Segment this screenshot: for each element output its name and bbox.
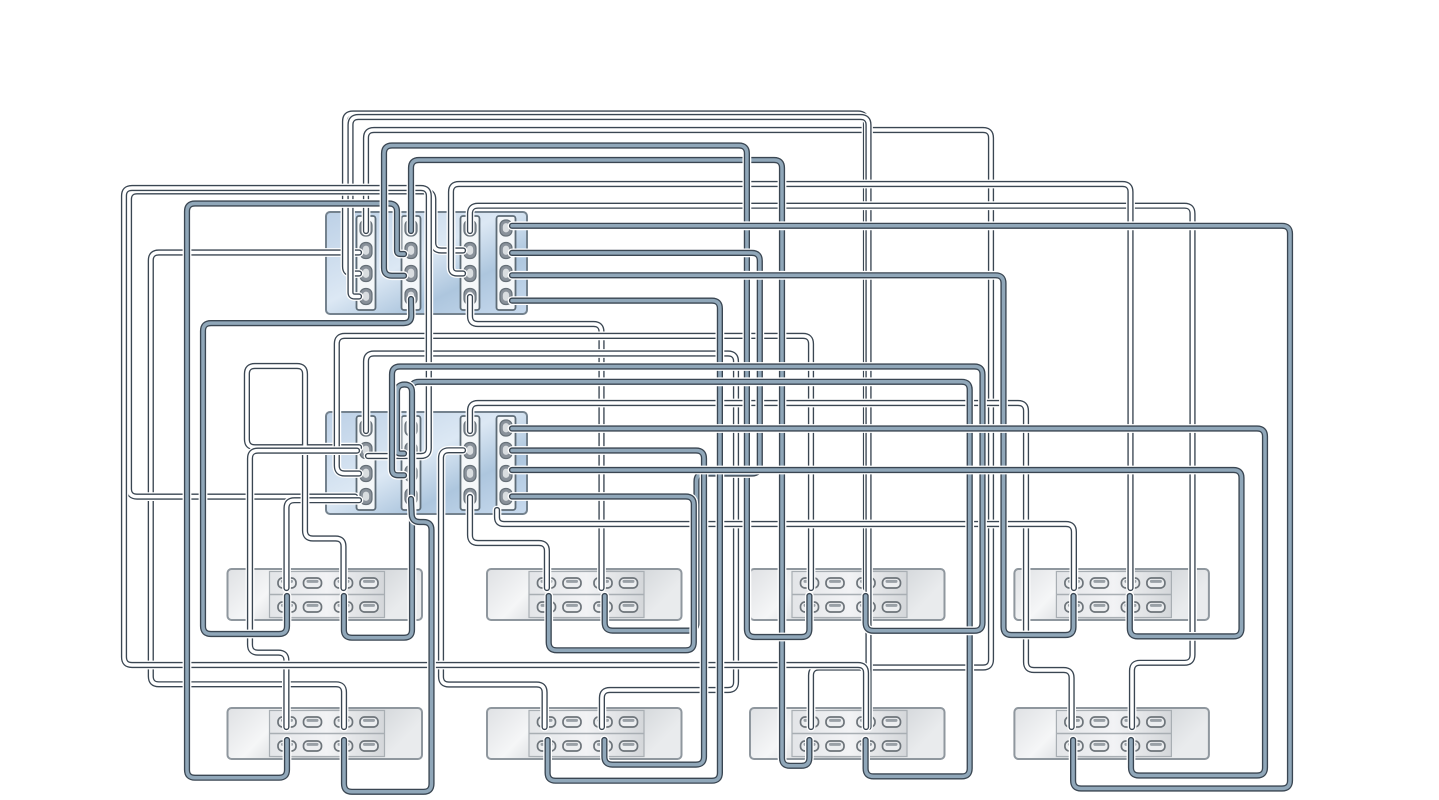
disk shelf DE4 <box>1014 569 1209 620</box>
shelf DE5 IOMB port 2 <box>335 741 353 751</box>
wire C1-A2 to shelf5 top port3 <box>151 253 359 728</box>
controller U2 HBA slot 2 <box>402 416 421 510</box>
shelf DE5 IOMA port 3 <box>360 717 378 727</box>
controller U2 HBA slot 1 <box>357 416 376 510</box>
shelf DE7 IOMA port 3 <box>883 717 901 727</box>
shelf DE7 IOMA port 2 <box>857 717 875 727</box>
shelf DE3 IOMB port 1 <box>826 602 844 612</box>
shelf DE6 IOMA port 2 <box>594 717 612 727</box>
controller U1 HBA3 port 1 <box>464 220 476 236</box>
shelf DE1 IOMB port 1 <box>304 602 322 612</box>
shelf DE8 IOMB port 3 <box>1147 741 1165 751</box>
shelf DE8 IOMA port 2 <box>1121 717 1139 727</box>
shelf DE6 IOMA port 0 <box>538 717 556 727</box>
wire C1-B1 to shelf7 bottom port1 <box>411 160 809 766</box>
wire C1-C3 to shelf4 top port3 <box>451 184 1131 588</box>
wire C1-D1 to shelf8 bottom port1 <box>512 226 1290 789</box>
disk shelf DE6 <box>487 708 682 759</box>
shelf DE2 IOMB port 2 <box>594 602 612 612</box>
controller U1 HBA2 port 1 <box>405 220 417 236</box>
controller U1 HBA1 port 1 <box>360 220 372 236</box>
shelf DE3 IOMB port 3 <box>883 602 901 612</box>
controller U2 HBA1 port 2 <box>360 443 372 459</box>
controller U1 HBA slot 4 <box>497 216 516 310</box>
shelf DE6 IOMB port 0 <box>538 741 556 751</box>
disk shelf DE7 <box>750 708 945 759</box>
wire C2-A3 to shelf3 top port1 <box>337 336 811 588</box>
controller U1 HBA slot 2 <box>402 216 421 310</box>
wire C1-B2 to shelf5 bottom port1 <box>187 204 404 778</box>
controller U1 HBA4 port 4 <box>500 289 512 305</box>
controller U2 HBA3 port 2 <box>464 443 476 459</box>
shelf DE6 IOMB port 2 <box>594 741 612 751</box>
shelf DE3 IOMA port 3 <box>883 578 901 588</box>
shelf DE6 IOMA port 3 <box>620 717 638 727</box>
shelf DE5 IOMB port 3 <box>360 741 378 751</box>
shelf DE1 IOMB port 0 <box>278 602 296 612</box>
wire C2-A2b to shelf5 top port1 <box>250 451 357 727</box>
wire C2 to shelf7 top port3 long run <box>124 188 866 727</box>
shelf DE5 IOMB port 1 <box>304 741 322 751</box>
shelf DE6 IOMB port 3 <box>620 741 638 751</box>
controller U1 HBA4 port 3 <box>500 266 512 282</box>
shelf DE1 IOMA port 2 <box>335 578 353 588</box>
shelf DE3 IOMA port 0 <box>801 578 819 588</box>
controller U1 HBA3 port 3 <box>464 266 476 282</box>
wire C2-B3 to shelf3 bottom port3 <box>392 367 983 631</box>
shelf DE7 IOMB port 0 <box>801 741 819 751</box>
disk shelf DE2 <box>487 569 682 620</box>
controller U2 HBA2 port 1 <box>405 420 417 436</box>
shelf DE8 IOMA port 0 <box>1065 717 1083 727</box>
wire C2-B1 to shelf7 bottom port3 <box>411 382 970 777</box>
shelf DE2 IOMB port 1 <box>563 602 581 612</box>
controller U1 HBA2 port 4 <box>405 289 417 305</box>
wire C1-A3 to shelf3 top port3 <box>345 114 866 589</box>
wire C2-D1 to shelf8 bottom port3 <box>512 429 1265 776</box>
wire C2-C1 to shelf8 top port1 <box>470 403 1072 727</box>
wire C2-B4 to shelf5 bottom port3 <box>344 499 432 792</box>
controller U1 HBA4 port 2 <box>500 243 512 259</box>
controller U1 HBA3 port 2 <box>464 243 476 259</box>
shelf DE2 IOMA port 3 <box>620 578 638 588</box>
shelf DE3 IOMB port 2 <box>857 602 875 612</box>
shelf DE2 IOMA port 0 <box>538 578 556 588</box>
wire C2-B2 to shelf1 bottom port3 <box>344 385 412 638</box>
controller U1 HBA slot 1 <box>357 216 376 310</box>
wire C2-C2 to shelf6 top port1 <box>441 450 545 727</box>
shelf DE1 IOMA port 3 <box>360 578 378 588</box>
shelf DE3 IOMA port 2 <box>857 578 875 588</box>
shelf DE1 IOMA port 0 <box>278 578 296 588</box>
shelf DE5 IOMA port 2 <box>335 717 353 727</box>
controller U2 HBA2 port 3 <box>405 466 417 482</box>
disk shelf DE8 <box>1014 708 1209 759</box>
shelf DE5 IOMA port 1 <box>304 717 322 727</box>
controller U2 HBA4 port 2 <box>500 443 512 459</box>
shelf DE6 IOMA port 1 <box>563 717 581 727</box>
controller U2 HBA1 port 4 <box>360 489 372 505</box>
wire C1-A4 to shelf7 top port3 <box>351 117 869 727</box>
shelf DE7 IOMB port 1 <box>826 741 844 751</box>
shelf DE8 IOMB port 1 <box>1090 741 1108 751</box>
shelf DE3 IOMB port 0 <box>801 602 819 612</box>
controller U1 HBA1 port 4 <box>360 289 372 305</box>
wire C1-C1 to shelf8 top port3 <box>470 206 1193 727</box>
controller U2 HBA2 port 2 <box>405 443 417 459</box>
controller U2 HBA slot 4 <box>497 416 516 510</box>
wire C2-C4 to shelf2 top port1 <box>470 497 547 588</box>
shelf DE6 IOMB port 1 <box>563 741 581 751</box>
wire C2-A1 to shelf6 top port3 <box>366 354 736 728</box>
shelf DE1 IOMA port 1 <box>304 578 322 588</box>
shelf DE4 IOMA port 2 <box>1121 578 1139 588</box>
shelf DE5 IOMB port 0 <box>278 741 296 751</box>
controller U1 HBA1 port 3 <box>360 266 372 282</box>
shelf DE8 IOMA port 1 <box>1090 717 1108 727</box>
shelf DE1 IOMB port 2 <box>335 602 353 612</box>
shelf DE4 IOMB port 2 <box>1121 602 1139 612</box>
wire C2-D4 to shelf2 bottom port1 <box>512 497 694 651</box>
wire C2-A4 to shelf1 top port1 <box>287 500 360 588</box>
shelf DE2 IOMB port 3 <box>620 602 638 612</box>
shelf DE7 IOMA port 1 <box>826 717 844 727</box>
wire C1-B3 to shelf3 bottom port1 <box>384 146 809 638</box>
controller U2 HBA1 port 1 <box>360 420 372 436</box>
shelf DE4 IOMA port 3 <box>1147 578 1165 588</box>
controller U2 HBA3 port 3 <box>464 466 476 482</box>
shelf DE4 IOMB port 3 <box>1147 602 1165 612</box>
wire C2-C3 to shelf4 top port1 <box>497 510 1074 588</box>
shelf DE4 IOMB port 0 <box>1065 602 1083 612</box>
wire C1-A1 to shelf7 top port1 <box>366 130 991 727</box>
shelf DE8 IOMA port 3 <box>1147 717 1165 727</box>
shelf DE4 IOMA port 0 <box>1065 578 1083 588</box>
wire C2-D2 to shelf6 bottom port3 <box>512 451 704 765</box>
shelf DE7 IOMA port 0 <box>801 717 819 727</box>
disk shelf DE5 <box>228 708 423 759</box>
wire C1-D3 to shelf4 bottom port1 <box>512 275 1074 635</box>
shelf DE8 IOMB port 2 <box>1121 741 1139 751</box>
wire C1-C2 via left margin <box>129 191 463 496</box>
wire C1-C4 to shelf2 top port3 <box>470 297 602 588</box>
shelf DE2 IOMA port 2 <box>594 578 612 588</box>
shelf DE7 IOMB port 2 <box>857 741 875 751</box>
controller U2 HBA4 port 1 <box>500 420 512 436</box>
controller U2 HBA1 port 3 <box>360 466 372 482</box>
shelf DE4 IOMB port 1 <box>1090 602 1108 612</box>
wire C1-B4 to shelf1 bottom port1 <box>203 299 411 634</box>
wire C1-D4 to shelf6 bottom port1 <box>512 301 720 781</box>
shelf DE5 IOMA port 0 <box>278 717 296 727</box>
controller U1 HBA1 port 2 <box>360 243 372 259</box>
controller U1 HBA4 port 1 <box>500 220 512 236</box>
controller U1 HBA slot 3 <box>461 216 480 310</box>
shelf DE2 IOMB port 0 <box>538 602 556 612</box>
shelf DE1 IOMB port 3 <box>360 602 378 612</box>
controller U2 HBA3 port 4 <box>464 489 476 505</box>
controller U2 HBA slot 3 <box>461 416 480 510</box>
shelf DE7 IOMB port 3 <box>883 741 901 751</box>
controller U1 (ZS storage controller) <box>326 212 527 314</box>
controller U1 HBA2 port 3 <box>405 266 417 282</box>
wire C2-A2 to shelf1 top port3 <box>247 366 359 588</box>
controller U2 HBA4 port 4 <box>500 489 512 505</box>
wire C1-D2 to shelf2 bottom port3 <box>512 253 760 631</box>
shelf DE3 IOMA port 1 <box>826 578 844 588</box>
controller U2 HBA3 port 1 <box>464 420 476 436</box>
shelf DE8 IOMB port 0 <box>1065 741 1083 751</box>
wire C2-D3 to shelf4 bottom port3 <box>512 470 1242 636</box>
disk shelf DE1 <box>228 569 423 620</box>
controller U1 HBA3 port 4 <box>464 289 476 305</box>
disk shelf DE3 <box>750 569 945 620</box>
shelf DE4 IOMA port 1 <box>1090 578 1108 588</box>
controller U2 HBA2 port 4 <box>405 489 417 505</box>
controller U1 HBA2 port 2 <box>405 243 417 259</box>
shelf DE2 IOMA port 1 <box>563 578 581 588</box>
controller U2 HBA4 port 3 <box>500 466 512 482</box>
controller U2 (ZS storage controller) <box>326 412 527 514</box>
